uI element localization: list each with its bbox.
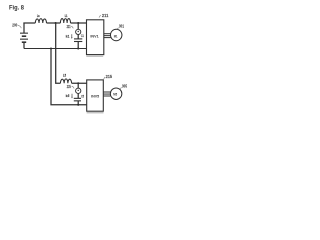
wire negative drop to branch 2 (51, 49, 87, 105)
inverter U1 box 211 (87, 20, 104, 55)
capacitor C5 (74, 98, 81, 101)
215 leader (103, 77, 105, 80)
motor M1 circle 301 (110, 29, 122, 41)
Ic1 arrow (71, 34, 73, 37)
wire (77, 101, 79, 105)
node junction dot capacitor branch 1 (77, 22, 79, 24)
wire (77, 23, 79, 29)
svg-text:225: 225 (67, 84, 71, 89)
svg-text:M5: M5 (113, 92, 117, 97)
211 leader (99, 15, 101, 18)
current sensor 221 (76, 29, 81, 34)
wire (77, 35, 79, 39)
svg-text:305: 305 (122, 83, 128, 88)
svg-text:L1: L1 (65, 14, 68, 18)
svg-text:C1: C1 (81, 33, 84, 38)
wire (72, 82, 87, 84)
svg-text:La: La (37, 14, 40, 18)
box 2 shadow (87, 112, 104, 114)
inverter U5 box 215 (87, 80, 104, 111)
svg-text:L5: L5 (63, 74, 66, 78)
svg-text:211: 211 (102, 13, 109, 18)
wire (71, 22, 87, 24)
sensor leader squiggle (72, 86, 75, 88)
svg-text:215: 215 (106, 74, 113, 79)
box 1 shadow (86, 55, 103, 57)
svg-text:C5: C5 (81, 94, 84, 99)
node junction dot negative tap (50, 47, 52, 49)
inductor L1 (60, 19, 70, 23)
wire negative rail 1 (24, 48, 87, 50)
wire positive drop to branch 2 (56, 23, 61, 83)
battery leader squiggle (18, 25, 21, 28)
node junction dot cap1 bottom (77, 47, 79, 49)
wire top positive rail (23, 22, 35, 24)
svg-text:INV5: INV5 (91, 93, 100, 98)
Ic5 arrow (71, 94, 73, 97)
wire three phase lines 1 (104, 34, 111, 38)
svg-text:M1: M1 (114, 33, 118, 38)
svg-text:200: 200 (12, 23, 17, 28)
wire three phase lines 2 (103, 92, 110, 96)
svg-text:Ic5: Ic5 (66, 94, 70, 98)
wire (47, 22, 61, 24)
wire (77, 94, 79, 99)
svg-text:Ic1: Ic1 (66, 35, 70, 39)
svg-text:301: 301 (119, 23, 125, 28)
svg-text:INV1: INV1 (90, 33, 99, 38)
capacitor C1 (74, 39, 82, 42)
305 leader (120, 87, 122, 89)
sensor leader squiggle (71, 26, 74, 28)
current sensor 225 (76, 88, 81, 93)
node junction dot top tap (55, 22, 57, 24)
battery 200 (20, 23, 28, 49)
wire (77, 42, 79, 49)
svg-text:221: 221 (67, 24, 71, 29)
motor M5 circle 305 (110, 88, 122, 100)
301 leader (117, 28, 119, 30)
inductor L5 (60, 79, 71, 83)
inductor La (35, 19, 46, 23)
wire (77, 83, 79, 88)
node junction dot cap5 bottom (77, 104, 79, 106)
svg-text:Fig. 8: Fig. 8 (9, 5, 25, 11)
node junction dot capacitor branch 2 (77, 82, 79, 84)
